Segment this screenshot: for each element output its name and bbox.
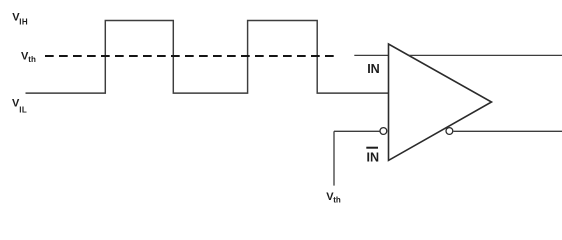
input square wave	[26, 21, 389, 94]
Vth dashed threshold line	[45, 55, 334, 57]
svg-text:th: th	[28, 55, 36, 64]
inversion bubble (input)	[380, 128, 387, 135]
svg-text:IH: IH	[19, 18, 28, 27]
label VIH	[12, 11, 28, 26]
wire OUTbar (bottom, complementary output)	[453, 130, 562, 132]
svg-text:IN: IN	[367, 150, 380, 164]
wire Vth feed (vertical)	[333, 131, 335, 185]
receiver U1 (triangle)	[389, 44, 492, 160]
wire INbar input	[334, 130, 380, 132]
svg-text:th: th	[333, 196, 341, 205]
inversion bubble (output)	[446, 128, 453, 135]
svg-text:IL: IL	[19, 106, 27, 115]
label INbar (with overline)	[366, 147, 379, 165]
wire IN input stub	[354, 54, 388, 56]
label Vth (bottom)	[326, 191, 341, 205]
label Vth (left)	[21, 50, 36, 64]
label VIL	[12, 98, 27, 115]
svg-text:IN: IN	[367, 62, 380, 76]
wire OUT (top, true output)	[409, 54, 562, 56]
